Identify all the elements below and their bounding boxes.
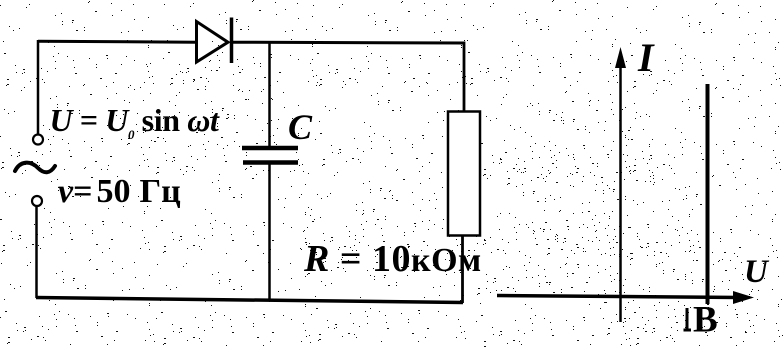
diode characteristic vertical line: [706, 84, 710, 304]
label 1V digit 1: [684, 308, 692, 330]
wire capacitor branch lower vertical: [268, 164, 271, 300]
capacitor C bottom plate: [243, 160, 298, 165]
AC source terminal lower circle: [32, 196, 42, 206]
diode D1 cathode bar: [230, 18, 234, 64]
svg-text:C: C: [288, 107, 313, 147]
wire top-right horizontal segment: [231, 41, 465, 45]
wire left vertical upper segment: [37, 40, 40, 134]
graph I axis arrowhead: [615, 47, 626, 68]
wire resistor branch lower vertical: [461, 235, 464, 303]
svg-text:ν=50Гц: ν=50Гц: [58, 173, 181, 210]
svg-text:В: В: [693, 300, 718, 341]
svg-text:R = 10кОм: R = 10кОм: [303, 238, 482, 280]
wire resistor branch upper vertical: [463, 42, 466, 113]
AC source tilde symbol: [15, 163, 55, 173]
resistor R body: [448, 112, 480, 236]
wire left vertical lower segment: [35, 207, 38, 299]
svg-text:I: I: [637, 35, 655, 80]
diode D1 triangle: [197, 22, 229, 63]
graph I axis line: [619, 62, 622, 322]
AC source terminal upper circle: [33, 135, 43, 145]
svg-text:U = U0 sin ωt: U = U0 sin ωt: [50, 102, 220, 142]
capacitor C top plate: [242, 146, 298, 151]
svg-text:U: U: [744, 254, 770, 290]
wire top-left horizontal segment: [38, 41, 196, 42]
wire capacitor branch upper vertical: [268, 41, 271, 146]
wire bottom horizontal segment: [36, 298, 463, 303]
graph U axis arrowhead: [733, 291, 754, 304]
graph U axis line: [497, 296, 740, 298]
